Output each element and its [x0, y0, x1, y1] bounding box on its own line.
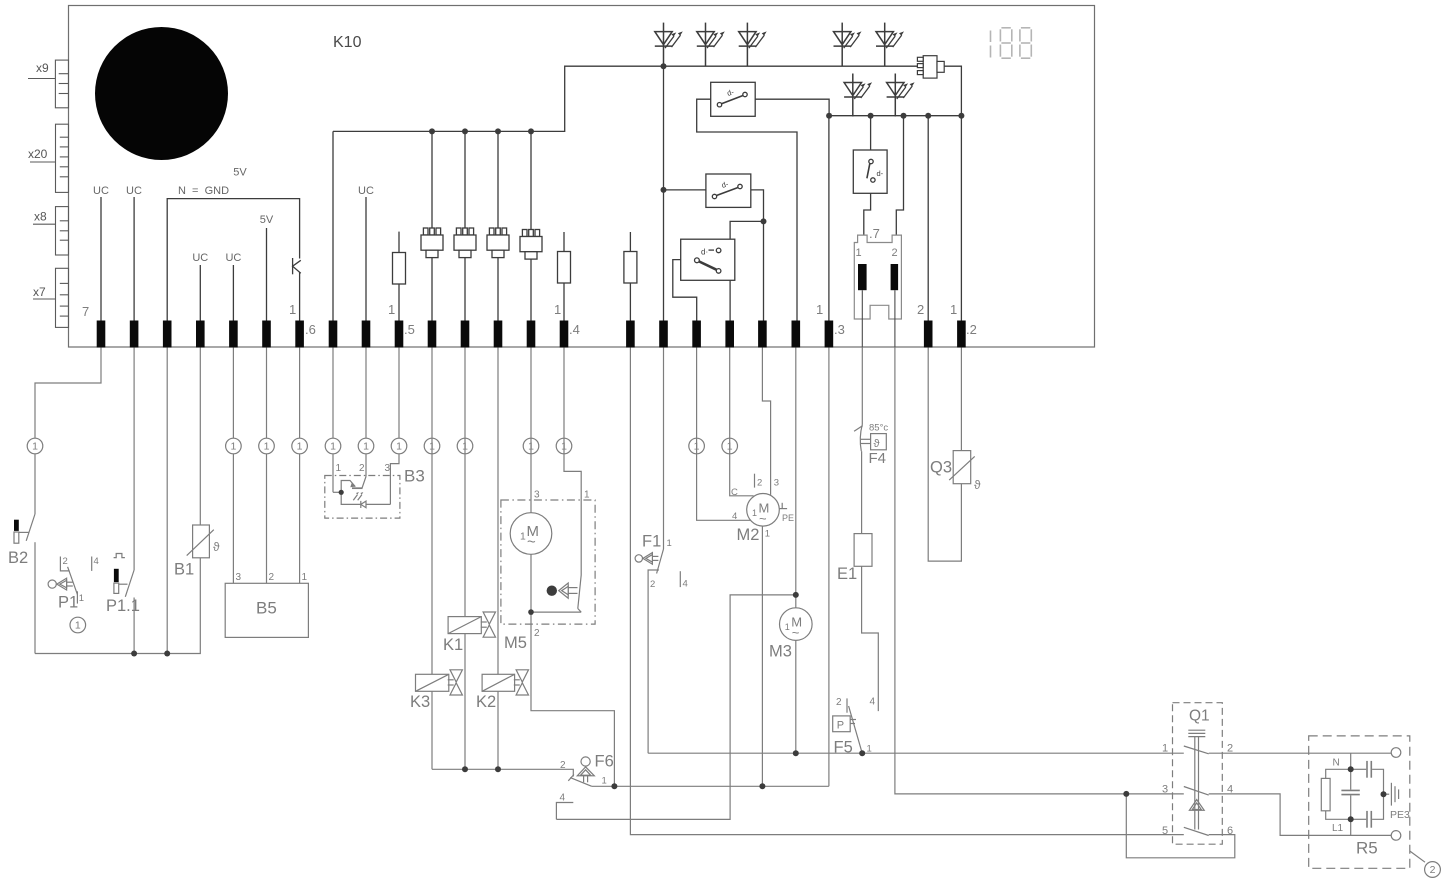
connector x7: [33, 268, 69, 327]
wire thermostat D top: [870, 116, 872, 150]
svg-text:2: 2: [560, 760, 566, 771]
svg-text:C: C: [731, 487, 738, 498]
7-segment display 188: [991, 28, 1032, 58]
wire UC stub pin2: [133, 197, 135, 321]
svg-text:M5: M5: [504, 634, 527, 652]
connector x9: [28, 60, 69, 108]
svg-text:1: 1: [79, 593, 84, 604]
wire UC stub pin4: [199, 265, 201, 321]
svg-text:2: 2: [650, 579, 655, 590]
svg-text:1: 1: [289, 302, 296, 317]
svg-text:4: 4: [1227, 784, 1233, 796]
wire branch to relay K-C top: [730, 221, 763, 239]
node marker 1: [391, 438, 407, 454]
M5 float ball: [547, 586, 557, 596]
wire pad15 to M5 level switch: [564, 348, 581, 576]
junction: [793, 592, 799, 598]
valve K2 body: [514, 670, 529, 695]
thermistor B1: [187, 525, 214, 558]
motor M2: [747, 494, 780, 527]
mains filter R5 box: [1309, 736, 1410, 868]
wire M2 pin1 to wire-A: [761, 526, 763, 786]
switch P1 terminal 1: [76, 591, 78, 603]
svg-text:1: 1: [1162, 743, 1168, 755]
pressure switch F5 terminal 2 stub: [846, 698, 848, 712]
svg-text:x20: x20: [28, 147, 48, 161]
svg-text:3: 3: [774, 478, 779, 489]
switch P1 terminal 2: [60, 557, 69, 571]
wire pad22 drop to wire-A: [828, 348, 830, 787]
relay contact KB: [706, 174, 751, 207]
resistor R1 stub: [398, 232, 400, 253]
svg-text:ϑ: ϑ: [213, 540, 220, 554]
svg-text:UC: UC: [126, 185, 142, 197]
svg-text:R5: R5: [1356, 839, 1378, 858]
svg-text:UC: UC: [93, 185, 109, 197]
resistor R3: [624, 252, 637, 284]
junction: [925, 113, 931, 119]
svg-text:1: 1: [520, 532, 526, 543]
svg-text:85°c: 85°c: [869, 423, 888, 434]
wire driver drop Q-pack3: [497, 131, 499, 228]
wire F4 to E1: [861, 451, 863, 533]
R5 input socket L: [1391, 831, 1401, 841]
svg-text:L1: L1: [1332, 823, 1344, 834]
svg-text:5V: 5V: [233, 167, 247, 179]
junction bottom rail pin3: [164, 651, 170, 657]
wire loop to Q1 pin6: [1126, 794, 1235, 858]
M2 PE stub: [779, 508, 787, 510]
svg-text:F5: F5: [834, 739, 853, 757]
wire N=GND bracket pins 3-7: [167, 199, 299, 321]
wire relay K-B right to pad 762: [751, 190, 764, 321]
svg-text:M3: M3: [769, 643, 792, 661]
junction: [901, 113, 907, 119]
svg-text:7: 7: [82, 304, 89, 319]
svg-text:1: 1: [867, 744, 872, 755]
wire K-row to F6: [432, 769, 573, 776]
wire F6 pin1 to wire-A: [592, 785, 829, 787]
wire pad11 through K3: [431, 348, 433, 675]
wire pad13 through K2: [497, 348, 499, 675]
R5 Y-capacitor bottom: [1351, 818, 1367, 820]
resistor R2 stub: [563, 232, 565, 252]
wire pad5 to B5 pin3: [232, 348, 234, 584]
wire pad6 to B5 pin2: [266, 348, 268, 584]
M5 housing box: [501, 500, 595, 624]
main switch Q1 box: [1173, 703, 1223, 845]
svg-text:.3: .3: [834, 322, 845, 337]
pad group labels: [82, 302, 977, 337]
wire pad9 to B3 pin2: [365, 348, 367, 477]
F6 terminal 4 stub: [556, 803, 573, 820]
connector x8: [33, 207, 69, 255]
svg-text:PE: PE: [782, 513, 794, 523]
F5 blade: [849, 706, 863, 753]
svg-text:5: 5: [1162, 825, 1168, 837]
svg-text:2: 2: [1430, 864, 1436, 876]
wire supply bus riser pad 8: [332, 131, 334, 320]
svg-text:.4: .4: [569, 322, 580, 337]
wire relay K-C bottom to pad 729: [729, 280, 731, 320]
LED L1: [844, 74, 872, 117]
junction: [868, 113, 874, 119]
junction: [495, 766, 501, 772]
wire Q3 to pad24: [960, 348, 962, 451]
sensor B5 body: [225, 583, 308, 637]
svg-text:4: 4: [870, 697, 876, 708]
R5 input socket N: [1391, 748, 1401, 758]
R5 X-capacitor: [1350, 769, 1352, 789]
wire driver drop Q-pack4: [530, 131, 532, 229]
node marker 1: [259, 438, 275, 454]
svg-text:P: P: [837, 720, 844, 732]
interference suppressor: [917, 56, 944, 78]
switch B2 blade: [26, 514, 35, 541]
wire M5 motor to switch: [531, 554, 581, 612]
transistor pack Q3a: [487, 228, 509, 258]
switch F6 blade: [570, 778, 592, 787]
door lock pin bars: [858, 264, 867, 290]
svg-text:F6: F6: [595, 753, 614, 771]
svg-text:B2: B2: [8, 549, 28, 567]
svg-text:2: 2: [63, 556, 68, 567]
svg-text:2: 2: [534, 628, 540, 639]
junction: [611, 783, 617, 789]
resistor R3 stub: [629, 232, 631, 252]
thermal fuse F4: [854, 425, 886, 452]
F1 actuator: [635, 555, 642, 562]
wire bottom rail: [35, 558, 200, 654]
junction: [429, 128, 435, 134]
wire pad4 to B1: [199, 348, 201, 526]
svg-text:2: 2: [359, 463, 365, 474]
wire 5V stub pin6: [266, 228, 268, 321]
relay contact KC (changeover): [681, 239, 735, 280]
node marker 1: [325, 438, 341, 454]
Q1 contact 5-6: [1184, 827, 1209, 835]
thermistor Q3: [949, 451, 975, 484]
junction: [661, 187, 667, 193]
node marker 1: [722, 438, 738, 454]
valve K1 coil: [448, 617, 481, 634]
svg-text:.7: .7: [869, 226, 880, 241]
svg-text:B1: B1: [174, 561, 194, 579]
svg-text:2: 2: [269, 572, 275, 583]
wire bus to door lock pin2: [896, 116, 903, 235]
Q1 contact 1-2: [1184, 746, 1209, 754]
junction: [495, 128, 501, 134]
wire pad1 to B2: [35, 348, 101, 515]
wire doorlock pin2 to Q1 pin3: [895, 348, 1184, 794]
svg-text:1: 1: [336, 463, 342, 474]
wire driver drop Q-pack2: [464, 131, 466, 228]
node marker 1: [523, 438, 539, 454]
svg-text:1: 1: [302, 572, 308, 583]
svg-text:4: 4: [94, 556, 99, 567]
M5 float actuator: [559, 583, 569, 598]
svg-text:1: 1: [785, 622, 790, 632]
wire doorlock pin1 to F4: [861, 348, 863, 425]
svg-text:2: 2: [917, 302, 924, 317]
svg-text:3: 3: [534, 490, 540, 501]
svg-text:UC: UC: [358, 185, 374, 197]
resistor R1: [393, 253, 406, 285]
svg-text:P1.1: P1.1: [106, 597, 140, 615]
wire relay K-B left: [664, 189, 706, 191]
P1.1 pulse mark: [114, 554, 125, 558]
door thermostat contact KD: [853, 150, 887, 193]
switch P1.1 blade: [125, 570, 134, 597]
switch P1.1 contact bars: [114, 569, 119, 582]
node marker 1: [689, 438, 705, 454]
crimp clip symbol: [293, 260, 301, 273]
wire pad17 to F1: [663, 348, 665, 550]
R5 Y-capacitor top: [1351, 768, 1367, 770]
node marker 1 (P1): [70, 617, 86, 633]
svg-text:N: N: [1333, 758, 1340, 769]
svg-text:K3: K3: [410, 693, 430, 711]
LED H3: [739, 23, 767, 66]
svg-text:.5: .5: [404, 322, 415, 337]
svg-text:.6: .6: [305, 322, 316, 337]
junction R5 PE: [1381, 791, 1387, 797]
LED H1: [655, 23, 683, 66]
motor M3: [780, 608, 813, 641]
node marker 1: [424, 438, 440, 454]
transistor pack Q4a: [520, 230, 542, 260]
switch F1 blade: [657, 549, 664, 574]
svg-text:5V: 5V: [260, 214, 274, 226]
node marker 1: [226, 438, 242, 454]
switch P1 terminal 4 stub: [91, 557, 93, 571]
svg-text:B5: B5: [256, 599, 277, 618]
wire thermostat D to door lock pin1: [864, 193, 871, 235]
svg-text:2: 2: [836, 697, 842, 708]
R5 L1 branch down: [1350, 819, 1352, 835]
node marker 1: [292, 438, 308, 454]
door lock connector .7: [854, 235, 901, 319]
switch P1 actuator: [48, 580, 56, 588]
svg-text:3: 3: [385, 463, 391, 474]
relay contact KA: [711, 82, 756, 116]
svg-text:P1: P1: [58, 594, 78, 612]
switch F6 actuator: [581, 757, 590, 766]
wire pad8 to B3 pin1: [332, 348, 334, 493]
wire clip to pad 7: [299, 272, 301, 321]
node marker 1: [358, 438, 374, 454]
svg-text:x8: x8: [34, 210, 47, 224]
R5 earth PE3: [1384, 793, 1390, 795]
wire Q1 pin2 to R5 N input: [1209, 752, 1392, 754]
svg-text:3: 3: [236, 572, 242, 583]
control board K10 outline: [69, 6, 1095, 348]
wire pad23 to Q3 loop: [928, 348, 961, 562]
junction: [661, 63, 667, 69]
wire pad18 to M2 t4: [697, 348, 751, 521]
node marker 1: [27, 438, 43, 454]
B3 light arrows: [353, 495, 357, 500]
junction: [462, 128, 468, 134]
wire relay K-A right to LED bus: [755, 99, 829, 116]
svg-text:UC: UC: [225, 252, 241, 264]
heater E1: [854, 534, 872, 567]
LED H5: [876, 23, 904, 66]
door lock pin wires: [862, 290, 895, 347]
svg-text:1: 1: [950, 302, 957, 317]
F5 P-box: [833, 716, 851, 732]
svg-text:ϑ: ϑ: [874, 438, 880, 450]
junction: [462, 766, 468, 772]
svg-text:ϑ: ϑ: [974, 478, 981, 492]
svg-text:~: ~: [792, 625, 800, 640]
wire LED sub-bus: [829, 115, 961, 117]
connector labels: [28, 61, 49, 299]
tacho sensor B3 box: [325, 476, 400, 519]
motor M5: [510, 513, 552, 555]
junction R5 L1: [1348, 816, 1354, 822]
wire pad12 through K1: [464, 348, 466, 617]
wire pad7 to B5 pin1: [299, 348, 301, 584]
valve K1 body: [481, 612, 496, 637]
wire relay K-A left to pad 795: [697, 99, 797, 320]
svg-text:F1: F1: [642, 533, 661, 551]
B3 LED: [341, 492, 360, 504]
LED L2: [887, 74, 915, 117]
junction: [793, 750, 799, 756]
wire pad2 through P1.1: [133, 348, 135, 571]
potting blob (black circle) on board: [95, 27, 228, 160]
junction R5 N: [1348, 766, 1354, 772]
wire LED net riser pad x.3-1: [663, 66, 665, 320]
wire pad3 to bottom rail: [166, 348, 168, 654]
svg-text:1: 1: [856, 247, 862, 259]
svg-text:6: 6: [1227, 825, 1233, 837]
svg-text:UC: UC: [192, 252, 208, 264]
resistor R2: [558, 252, 571, 284]
junction B3: [339, 490, 344, 495]
F1 terminal 4 stub: [679, 571, 681, 587]
svg-text:K2: K2: [476, 693, 496, 711]
Q1 mechanism: [1188, 730, 1205, 829]
svg-text:1: 1: [816, 302, 823, 317]
svg-text:1: 1: [667, 538, 672, 549]
svg-text:K1: K1: [443, 636, 463, 654]
wire drop to pad 928: [927, 116, 929, 321]
F1 terminal 2: [648, 570, 659, 753]
svg-text:PE3: PE3: [1390, 809, 1410, 821]
R5 resistor branch: [1326, 769, 1351, 778]
junction: [528, 128, 534, 134]
wire Q1 pin4 to R5 L input: [1209, 794, 1392, 836]
svg-text:d·: d·: [701, 248, 708, 257]
wire relay K-C left to pad 696: [673, 260, 697, 321]
svg-text:x7: x7: [33, 285, 46, 299]
node marker 1: [556, 438, 572, 454]
wire pad16 to Q1 pin5: [630, 348, 1183, 835]
junction F5 pin1: [859, 750, 865, 756]
svg-text:.2: .2: [966, 322, 977, 337]
svg-text:~: ~: [759, 511, 767, 526]
M2 terminal tick 2|3: [754, 474, 756, 488]
switch B2 contact bars: [14, 520, 19, 531]
svg-text:M2: M2: [737, 526, 760, 544]
B3 phototransistor: [341, 481, 355, 493]
svg-text:1: 1: [602, 776, 607, 787]
junction: [958, 113, 964, 119]
svg-text:1: 1: [388, 302, 395, 317]
junction Q1 pin3 feed: [1123, 791, 1129, 797]
wire E1 to F5 terminal4 stub: [862, 566, 879, 711]
M5 level switch blade: [578, 575, 581, 609]
transistor pack Q1a: [421, 228, 443, 258]
wire pad19 to M2 tC: [730, 348, 754, 496]
transistor pack Q2a: [454, 228, 476, 258]
Q1 contact 3-4: [1184, 787, 1209, 796]
svg-text:F4: F4: [869, 450, 887, 467]
svg-text:3: 3: [1162, 784, 1168, 796]
svg-text:d-: d-: [877, 169, 884, 178]
svg-text:2: 2: [892, 247, 898, 259]
svg-text:4: 4: [683, 579, 688, 590]
wire UC stub x.5: [365, 197, 367, 321]
svg-text:E1: E1: [837, 565, 857, 583]
svg-text:1: 1: [554, 302, 561, 317]
LED H2: [697, 23, 725, 66]
LED H4: [834, 23, 862, 66]
svg-text:1: 1: [584, 490, 590, 501]
svg-text:1: 1: [765, 529, 770, 540]
switch P1 blade: [68, 567, 78, 595]
wire UC stub pin1: [100, 197, 102, 321]
junction M5: [528, 609, 534, 615]
wire pad20 to M2 t2/3: [762, 348, 770, 495]
svg-text:Q1: Q1: [1189, 708, 1210, 725]
junction: [759, 783, 765, 789]
svg-text:1: 1: [752, 508, 757, 518]
sheet marker 2: [1425, 862, 1441, 878]
valve K2 coil: [482, 674, 514, 691]
junction: [826, 113, 832, 119]
wire M5 pin2 out: [531, 612, 614, 786]
valve K3 body: [448, 670, 463, 695]
wire-C F6 t4 to M3 node: [556, 595, 795, 820]
svg-text:K10: K10: [333, 34, 362, 51]
R5 N branch: [1350, 753, 1352, 769]
node marker 1: [457, 438, 473, 454]
connector x20: [30, 124, 69, 192]
svg-text:4: 4: [560, 793, 566, 804]
svg-text:Q3: Q3: [930, 459, 952, 477]
wire driver drop Q-pack1: [431, 131, 433, 228]
wire-B F1 to Q1 pin1: [648, 752, 1184, 754]
svg-text:~: ~: [527, 534, 536, 551]
svg-text:4: 4: [732, 511, 737, 522]
wire bus drop to pad 828: [828, 116, 830, 321]
svg-text:N = GND: N = GND: [178, 185, 229, 197]
wire pad14 to M5 motor: [530, 348, 532, 513]
wire pad21 to M3: [795, 348, 797, 608]
R5 leader line: [1410, 851, 1425, 862]
junction bottom rail P1.1: [131, 651, 137, 657]
wire UC stub pin5: [232, 265, 234, 321]
junction: [761, 218, 767, 224]
wire M3 to wire-B: [795, 640, 797, 753]
wire horizontal driver bus: [333, 66, 961, 320]
valve K3 coil: [416, 674, 449, 691]
wire B2 to bottom rail: [34, 542, 36, 653]
svg-text:2: 2: [757, 478, 762, 489]
